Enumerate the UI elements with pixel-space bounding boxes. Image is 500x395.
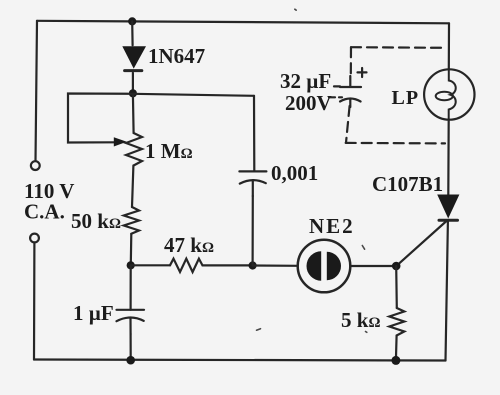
wire left lower [33,243,36,360]
svg-text:1N647: 1N647 [148,44,205,68]
capacitor C2 1uF [117,310,145,334]
node dot 50k/47k/1uF junction [127,261,135,269]
svg-text:C.A.: C.A. [24,200,65,224]
svg-text:200V: 200V [285,91,332,115]
wire top rail to diode [131,21,134,45]
wire 1uF to bottom rail [130,334,132,360]
terminal T1 (110V top) [31,161,40,170]
wire node down to 1M pot [132,94,135,133]
capacitor C1 0.001 [239,171,266,196]
resistor R2 50k (zigzag) [124,207,139,234]
potentiometer arrow [114,137,127,146]
wire 47k to 0.001 node [203,264,252,266]
node dot 0.001/NE2 junction [249,261,257,269]
lamp LP (envelope) [424,69,474,119]
svg-text:1 µF: 1 µF [73,301,114,325]
wire node to 0.001 cap branch [133,94,254,96]
speckles (scan artifacts) [257,9,367,332]
dashed enclosure box for 32uF (open at right, closes on lamp wire) [346,47,445,143]
node dot gate junction [392,262,401,271]
wire right upper (top rail to lamp) [448,23,450,69]
wire pot to 50k [132,166,133,208]
terminal T2 (110V bottom) [30,234,39,243]
node dot bottom rail right [391,356,400,365]
neon lamp NE2 (envelope) [298,240,351,293]
wire 0.001 to node [252,196,254,266]
lamp LP filament [449,70,456,120]
resistor R3 47k (zigzag horizontal) [170,259,203,272]
diode D1 1N647 [122,46,146,70]
NE2 right electrode [327,252,341,280]
wire pot wiper loop [68,94,133,143]
wire 1uF branch [130,265,132,310]
SCR C107B1 (thyristor) [397,195,460,266]
svg-text:32 µF: 32 µF [280,69,331,93]
svg-text:0,001: 0,001 [271,161,318,185]
wire 5k to bottom rail [395,336,398,361]
potentiometer R1 1M ohm (zigzag) [126,133,142,166]
svg-text:C107B1: C107B1 [372,172,443,196]
wire 50k to node [130,234,133,264]
wire 0.001 branch down [253,96,256,171]
wire node to NE2 [253,264,298,266]
wire left upper (to top terminal) [36,21,38,161]
node dot top rail / diode branch [128,17,136,25]
node dot bottom rail left [126,356,135,365]
wire top rail [37,21,449,24]
wire gate node to 5k [395,266,398,308]
wire NE2 to gate node [350,265,396,267]
node dot diode/pot junction [129,89,137,97]
wire lamp to SCR [447,120,450,195]
wire bottom rail [34,360,446,361]
wire node to 47k [131,264,170,266]
resistor R4 5k (zigzag) [389,308,404,336]
svg-text:NE2: NE2 [309,214,355,238]
NE2 left electrode [307,251,322,280]
svg-text:LP: LP [392,87,420,109]
wire SCR cathode down to bottom rail [446,222,448,361]
capacitor C3 32uF 200V (phantom) [329,68,367,107]
wire diode to node [132,73,134,92]
